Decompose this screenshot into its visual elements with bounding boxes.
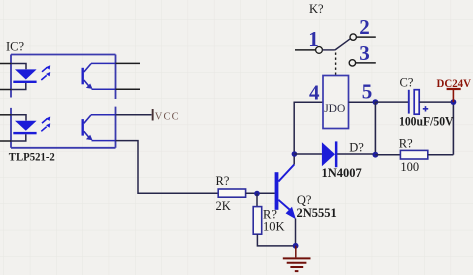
wire pin3 anode LED2: [0, 114, 11, 116]
svg-text:JDO: JDO: [324, 103, 345, 115]
wire emitter1 stub: [116, 88, 141, 90]
node emitter junction: [293, 243, 299, 249]
wire contact 1 to pivot: [322, 49, 335, 51]
wire to R100: [375, 154, 400, 156]
svg-text:R?: R?: [399, 137, 413, 151]
svg-text:2: 2: [359, 15, 370, 39]
node pin5 junction: [373, 99, 379, 105]
wire LED1 anode internal: [11, 64, 26, 70]
wire cap to DC24V node: [419, 101, 453, 103]
wire rail pin5 down to diode row: [374, 102, 376, 155]
wire coil pin5: [349, 101, 376, 103]
LED 2 of IC: [13, 117, 50, 135]
wire collector2 to VCC: [116, 114, 152, 116]
switch arm: [335, 39, 351, 50]
svg-text:D?: D?: [349, 141, 364, 155]
contact circle 1: [316, 47, 323, 54]
svg-text:DC24V: DC24V: [437, 76, 472, 90]
diode D? 1N4007: [322, 141, 338, 167]
svg-text:1: 1: [308, 27, 319, 51]
resistor R? 10K: [253, 207, 262, 235]
svg-text:C?: C?: [400, 76, 414, 90]
phototransistor 2: [82, 115, 116, 141]
node diode row right: [373, 152, 379, 158]
svg-text:K?: K?: [309, 2, 324, 16]
transistor Q? 2N5551: [275, 165, 296, 220]
svg-text:2N5551: 2N5551: [297, 206, 337, 220]
svg-text:3: 3: [359, 41, 370, 65]
wire R100 to right rail: [428, 154, 454, 156]
capacitor C? 100uF/50V: [409, 90, 428, 115]
ground: [283, 246, 311, 271]
svg-text:5: 5: [362, 80, 373, 104]
svg-text:100uF/50V: 100uF/50V: [399, 115, 454, 129]
wire to diode: [294, 153, 322, 155]
svg-text:10K: 10K: [263, 219, 285, 233]
resistor R? 2K: [218, 189, 245, 197]
svg-text:VCC: VCC: [155, 112, 180, 123]
wire collector up to relay pin 4: [294, 102, 323, 164]
wire 10K bottom to emitter row: [257, 234, 295, 246]
wire contact 2 stub: [356, 36, 375, 38]
resistor R? 100: [400, 150, 427, 159]
svg-text:100: 100: [400, 160, 419, 174]
svg-text:TLP521-2: TLP521-2: [9, 152, 55, 164]
phototransistor 1: [82, 63, 116, 89]
wire pin1 anode LED1: [0, 63, 11, 65]
svg-text:1N4007: 1N4007: [322, 166, 362, 180]
wire emitter2 down to base row: [116, 141, 219, 194]
optocoupler IC box (TLP521-2): [11, 55, 116, 148]
LED 1 of IC: [13, 65, 50, 83]
svg-text:IC?: IC?: [6, 40, 25, 54]
wire base node down to 10K: [256, 194, 258, 207]
svg-text:2K: 2K: [216, 199, 231, 213]
contact circle 3: [349, 60, 355, 66]
power DC24V: [437, 76, 472, 102]
wire diode to rail: [337, 153, 375, 155]
relay coil box JDO: [323, 76, 349, 129]
node DC24V junction: [451, 99, 457, 105]
svg-text:4: 4: [309, 81, 320, 105]
svg-text:R?: R?: [216, 174, 230, 188]
wire right rail up: [452, 102, 454, 155]
wire LED2 cathode internal: [11, 134, 26, 141]
dashed link to coil: [335, 53, 337, 76]
wire emitter down: [295, 219, 297, 246]
wire collector1 stub: [116, 62, 141, 64]
wire contact 3 stub: [356, 62, 376, 64]
node diode row left: [292, 151, 298, 157]
wire cap row left: [375, 101, 408, 103]
wire to contact 1: [295, 49, 316, 51]
wire LED2 anode internal: [11, 115, 26, 121]
power VCC bar: [152, 109, 154, 121]
wire 2K to base: [246, 192, 275, 194]
node base junction: [254, 191, 260, 197]
contact circle 2: [350, 34, 356, 40]
wire pin4 cathode LED2: [0, 140, 11, 142]
wire pin2 cathode LED1: [0, 89, 11, 91]
wire LED1 cathode internal: [11, 83, 26, 90]
